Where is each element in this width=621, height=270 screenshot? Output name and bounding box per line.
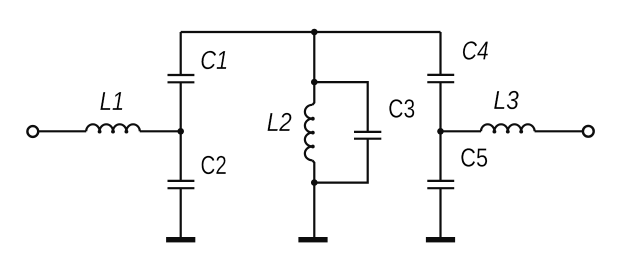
capacitor C3 <box>354 132 381 139</box>
wire L3 to port P2 <box>535 130 583 132</box>
inductor L1 <box>86 124 140 133</box>
svg-text:C1: C1 <box>200 46 228 75</box>
wire node D to ground <box>313 183 315 237</box>
node D junction dot <box>311 179 318 186</box>
wire P1 to L1 <box>38 130 86 132</box>
capacitor C5 <box>427 181 454 188</box>
capacitor C4 <box>427 75 454 82</box>
node E junction dot <box>437 128 444 135</box>
wire C2 to ground <box>180 188 182 237</box>
port P2 (right terminal) <box>583 126 594 137</box>
wire node E to L3 <box>441 130 482 132</box>
svg-text:C3: C3 <box>388 95 415 124</box>
wire node C down to L2 <box>313 82 315 105</box>
svg-text:L3: L3 <box>493 87 519 116</box>
svg-text:C2: C2 <box>201 151 227 180</box>
svg-text:C5: C5 <box>460 144 488 173</box>
node A junction dot <box>177 128 184 135</box>
ground GND1 <box>166 237 195 242</box>
wire top rail <box>181 31 441 33</box>
port P1 (left terminal) <box>27 126 38 137</box>
svg-text:L1: L1 <box>100 87 125 116</box>
wire top rail down to C1 <box>180 32 182 75</box>
svg-text:C4: C4 <box>462 38 489 67</box>
wire C4 to node E <box>439 82 441 181</box>
ground GND2 <box>298 237 327 242</box>
wire L2 to node D <box>313 161 315 183</box>
node C junction dot <box>311 79 318 86</box>
capacitor C2 <box>168 181 195 188</box>
wire top rail down to C4 <box>439 32 441 75</box>
wire L1 to node A <box>140 130 181 132</box>
inductor L3 <box>481 124 535 133</box>
wire C1 to node A <box>180 82 182 181</box>
wire C5 to ground <box>439 188 441 237</box>
wire node C to C3 branch <box>314 82 367 132</box>
wire C3 bottom to node D <box>314 139 367 183</box>
node B junction dot (top rail) <box>311 29 318 36</box>
ground GND3 <box>426 237 455 242</box>
inductor L2 <box>305 105 315 161</box>
svg-text:L2: L2 <box>267 108 293 137</box>
capacitor C1 <box>168 75 195 82</box>
wire top rail down to node C <box>313 32 315 82</box>
